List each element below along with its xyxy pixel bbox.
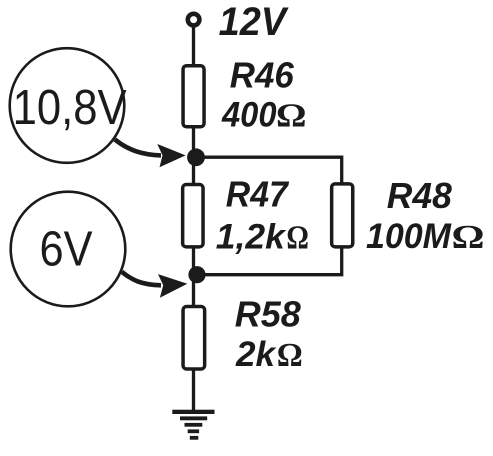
annotation bubble 6V	[11, 192, 126, 307]
svg-text:R48: R48	[387, 175, 452, 216]
svg-text:2k: 2k	[235, 335, 277, 374]
svg-text:400: 400	[221, 96, 277, 135]
terminal 12V	[188, 14, 200, 26]
svg-text:12V: 12V	[219, 0, 290, 44]
svg-text:Ω: Ω	[276, 98, 307, 135]
svg-text:R46: R46	[230, 55, 295, 96]
node B junction dot	[188, 266, 205, 283]
svg-text:Ω: Ω	[452, 219, 485, 256]
resistor R58	[183, 307, 205, 369]
annotation bubble 10,8V	[10, 48, 125, 163]
arrow from 10,8V bubble to node A	[115, 139, 186, 167]
svg-text:Ω: Ω	[277, 337, 303, 374]
arrow from 6V bubble to node B	[122, 272, 188, 298]
resistor R46	[183, 66, 204, 127]
resistor R47	[183, 185, 203, 247]
ground	[172, 410, 214, 440]
wire: loop to R48 (right branch)	[196, 157, 342, 275]
wire: main vertical rail	[192, 27, 195, 411]
svg-text:R58: R58	[235, 294, 301, 335]
svg-text:6V: 6V	[40, 223, 93, 277]
svg-text:100M: 100M	[366, 217, 452, 256]
node A junction dot	[187, 148, 205, 166]
resistor R48	[332, 184, 353, 247]
svg-text:1,2k: 1,2k	[216, 218, 287, 257]
svg-text:R47: R47	[226, 174, 290, 215]
svg-text:10,8V: 10,8V	[13, 81, 127, 135]
svg-text:Ω: Ω	[286, 220, 309, 257]
